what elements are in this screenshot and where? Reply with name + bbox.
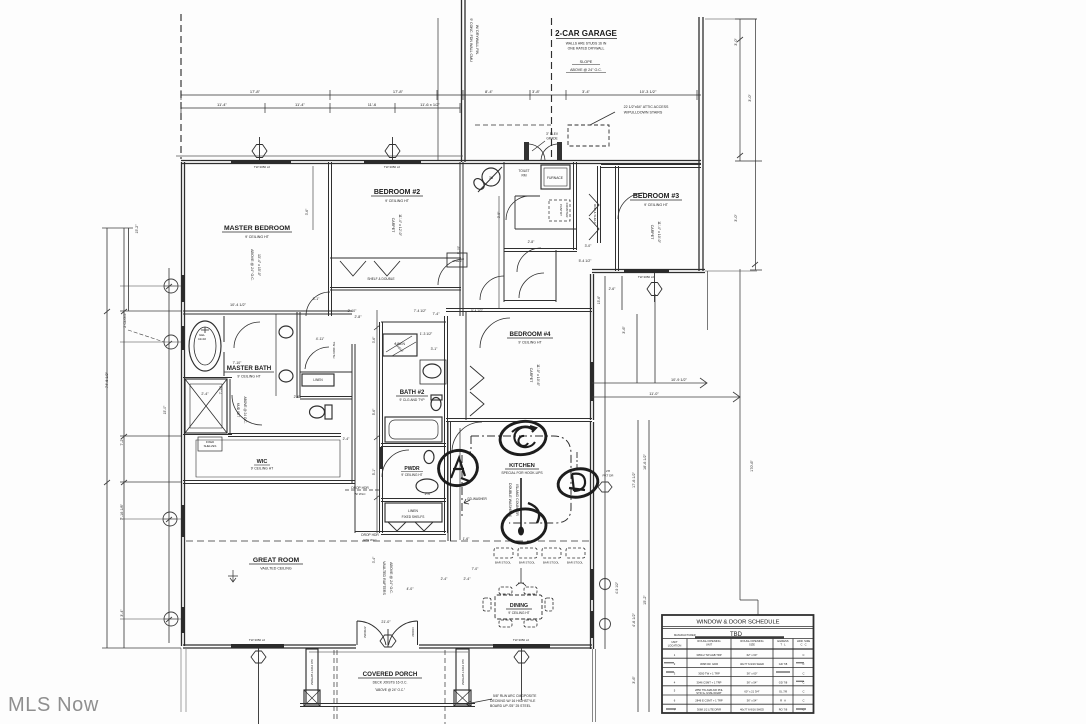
svg-text:GREAT ROOM: GREAT ROOM: [253, 557, 300, 564]
tub faucet: [201, 327, 209, 333]
furnace box: [541, 165, 570, 189]
mid bedroom right wall upper: [591, 274, 594, 420]
svg-text:TOILET: TOILET: [518, 169, 529, 173]
left circle symbol 3: [164, 612, 178, 626]
svg-text:6x6 POST W/TRIM: 6x6 POST W/TRIM: [461, 659, 465, 685]
svg-text:BATH #2: BATH #2: [400, 390, 425, 396]
svg-text:BAR STOOL: BAR STOOL: [567, 561, 583, 565]
svg-text:2'-10": 2'-10": [348, 309, 357, 313]
garage right wall: [699, 17, 703, 271]
bath2 vanity: [420, 360, 446, 384]
dining chairs bottom: [499, 620, 512, 627]
hall dim line: [374, 310, 380, 533]
master bedroom door arc: [306, 292, 330, 316]
left wall window bar 4: [181, 607, 185, 633]
svg-text:GD 7/8: GD 7/8: [779, 681, 788, 685]
svg-text:3'-4": 3'-4": [582, 89, 591, 94]
svg-text:5'-1": 5'-1": [372, 468, 376, 475]
linen master: [302, 374, 334, 386]
svg-text:2'-4": 2'-4": [201, 392, 209, 396]
pantry dashed: [549, 200, 570, 221]
svg-text:11'-4": 11'-4": [217, 102, 227, 107]
svg-text:C: C: [803, 708, 805, 712]
great room window bar: [231, 644, 284, 648]
svg-text:22 1/2"x54" ATTIC ACCESS: 22 1/2"x54" ATTIC ACCESS: [624, 105, 669, 109]
svg-text:13'-4" x 15'-0": 13'-4" x 15'-0": [257, 254, 261, 277]
svg-text:74'-6 1/2": 74'-6 1/2": [105, 371, 109, 388]
svg-text:4'-0": 4'-0": [407, 587, 415, 591]
svg-text:15'-2": 15'-2": [135, 224, 139, 234]
svg-text:5'-4 1/2": 5'-4 1/2": [471, 309, 483, 313]
left wall window bar 2: [181, 326, 185, 350]
circled A: [435, 447, 480, 489]
svg-text:C: C: [803, 690, 805, 694]
svg-text:TBD: TBD: [730, 632, 743, 638]
bed2 closet back wall: [330, 257, 461, 259]
svg-text:15'-6": 15'-6": [597, 295, 601, 304]
svg-text:VAULTED RAFTERS: VAULTED RAFTERS: [382, 561, 386, 595]
garage slab dashed edge: [475, 124, 551, 126]
svg-text:MASTER BATH: MASTER BATH: [227, 365, 272, 372]
svg-text:W/ DRYWALL FIN.: W/ DRYWALL FIN.: [475, 25, 479, 55]
svg-text:FIXED SHELFS: FIXED SHELFS: [402, 515, 425, 519]
left circle symbol 2: [163, 512, 177, 526]
porch dashed left: [334, 650, 337, 722]
dining wall extension lines: [593, 649, 596, 722]
svg-text:15'-2": 15'-2": [643, 595, 647, 605]
porch interior line: [309, 651, 468, 653]
svg-text:W/ WLC: W/ WLC: [354, 492, 366, 496]
pwdr bottom wall: [381, 499, 446, 502]
svg-text:ABOVE @ 24" O.C.: ABOVE @ 24" O.C.: [389, 562, 393, 594]
wic door arc: [232, 395, 262, 425]
mid bedroom closet wall: [465, 312, 467, 420]
svg-text:3'-8": 3'-8": [532, 89, 541, 94]
svg-text:C: C: [803, 672, 805, 676]
corner shower circle: [482, 168, 500, 186]
master dim line: [312, 166, 314, 230]
linen walls: [300, 372, 352, 399]
svg-text:ABOVE @ 24" O.C.: ABOVE @ 24" O.C.: [250, 249, 254, 281]
mud toilet: [472, 177, 487, 192]
svg-text:SHELF & DOUBLE: SHELF & DOUBLE: [367, 277, 394, 281]
svg-text:5'-6": 5'-6": [372, 408, 376, 415]
svg-text:ABOVE @ 24 O.C.: ABOVE @ 24 O.C.: [243, 397, 247, 424]
garage door arcs: [529, 144, 557, 160]
svg-text:C: C: [803, 699, 805, 703]
svg-text:DOOR: DOOR: [411, 628, 415, 638]
svg-text:16'-6 1/2": 16'-6 1/2": [643, 453, 647, 470]
svg-text:FURNACE: FURNACE: [547, 176, 564, 180]
svg-text:11'-6 x 1/2": 11'-6 x 1/2": [420, 102, 440, 107]
right top dim line b: [750, 19, 762, 270]
svg-text:2'-4": 2'-4": [464, 577, 472, 581]
svg-text:3'-4": 3'-4": [120, 609, 124, 617]
svg-text:7'-0": 7'-0": [472, 567, 480, 571]
porch dashed right: [444, 650, 446, 724]
bath2 right wall: [445, 316, 448, 533]
svg-text:ISLAND COUNTER: ISLAND COUNTER: [515, 484, 519, 516]
south wall: [183, 645, 592, 648]
svg-text:DECK JOISTS 16 O.C.: DECK JOISTS 16 O.C.: [373, 681, 408, 685]
svg-text:BAR STOOL: BAR STOOL: [543, 561, 559, 565]
top dim extension line: [437, 18, 439, 160]
svg-text:ONE RATED DRYWALL: ONE RATED DRYWALL: [568, 47, 605, 51]
bed2 closet front wall: [330, 288, 461, 291]
tub alcove wall: [223, 316, 225, 376]
svg-text:TW 3050 x2: TW 3050 x2: [384, 165, 401, 169]
svg-text:9' CEILING HT: 9' CEILING HT: [401, 473, 422, 477]
svg-text:3050-2 TW A&B TRP: 3050-2 TW A&B TRP: [696, 653, 722, 657]
mid bedroom door arc: [480, 318, 510, 348]
top dim line upper: [181, 90, 701, 100]
svg-text:BAR STOOL: BAR STOOL: [495, 561, 511, 565]
mid bedroom closet chevrons: [470, 366, 484, 416]
svg-text:21'-0": 21'-0": [381, 620, 391, 624]
svg-text:CARPET: CARPET: [391, 218, 395, 233]
svg-text:GD 7/8: GD 7/8: [779, 662, 788, 666]
svg-text:ABOVE @ 24" O.C.: ABOVE @ 24" O.C.: [570, 68, 602, 72]
svg-text:8'-4": 8'-4": [485, 89, 494, 94]
left wall window bar 1: [181, 275, 185, 302]
left circle symbol 1: [164, 279, 178, 293]
svg-text:DINING: DINING: [510, 603, 528, 609]
right bedroom door arc: [618, 193, 644, 219]
hex below dining: [514, 648, 529, 700]
wic top wall: [228, 434, 341, 437]
svg-text:3'-0": 3'-0": [734, 38, 738, 46]
shower inner: [190, 384, 222, 428]
window door schedule table: [662, 615, 814, 713]
note leader: [466, 699, 492, 706]
wic shelf box: [198, 437, 222, 451]
svg-text:ROD & SHELF: ROD & SHELF: [593, 204, 597, 224]
mud hall wall a: [503, 162, 505, 250]
grade leader: [532, 141, 545, 151]
left dim line 3: [120, 268, 181, 643]
master bath tub: [189, 321, 221, 371]
svg-text:DROP HDR: DROP HDR: [361, 533, 379, 537]
svg-text:LINEN: LINEN: [408, 509, 419, 513]
bar stool 2: [518, 548, 537, 558]
svg-text:6x6 POST W/TRIM: 6x6 POST W/TRIM: [310, 659, 314, 685]
svg-text:3'-0": 3'-0": [748, 94, 752, 102]
porch right pillar: [456, 649, 469, 704]
svg-text:SIZE: SIZE: [749, 643, 755, 647]
svg-text:UNIT: UNIT: [706, 643, 713, 647]
svg-text:60" x 21 3/4": 60" x 21 3/4": [744, 690, 759, 694]
svg-text:R/W WLC: R/W WLC: [363, 538, 377, 542]
wall master/bed2: [329, 162, 332, 316]
left wall extension lines: [181, 648, 186, 712]
bath2 toilet: [431, 398, 441, 411]
svg-text:TW 3050 x2: TW 3050 x2: [254, 165, 271, 169]
svg-text:MANUFACTURER: MANUFACTURER: [674, 633, 696, 637]
svg-text:GRADE: GRADE: [546, 137, 557, 141]
great room arrow: [228, 570, 238, 582]
right bedroom left wall: [616, 166, 619, 271]
dining chairs sides: [483, 598, 491, 611]
svg-text:BAR STOOL: BAR STOOL: [519, 561, 535, 565]
svg-text:7'-10": 7'-10": [219, 385, 223, 394]
svg-text:VAULTED CEILING: VAULTED CEILING: [260, 567, 292, 571]
bath2 sink: [423, 364, 441, 378]
wic shelf dashes: [196, 440, 340, 477]
toilet rm diagonal: [478, 167, 502, 192]
right mid dim line: [740, 269, 758, 615]
svg-text:2'-4": 2'-4": [441, 577, 449, 581]
svg-text:10'-9 1/2": 10'-9 1/2": [671, 378, 688, 382]
left dim line 1: [102, 228, 181, 648]
garage left wall: [462, 0, 466, 162]
svg-text:"ABOVE @ 24" O.C.": "ABOVE @ 24" O.C.": [375, 688, 405, 692]
entry door arcs: [357, 621, 418, 645]
svg-text:11'-4" x 12'-0": 11'-4" x 12'-0": [398, 214, 402, 237]
svg-text:2-CAR GARAGE: 2-CAR GARAGE: [555, 29, 617, 38]
right low dim line 2: [648, 420, 650, 712]
bar stool 1: [494, 548, 513, 558]
svg-text:C: C: [803, 681, 805, 685]
svg-text:T L: T L: [780, 643, 786, 647]
svg-text:CARPET: CARPET: [529, 368, 533, 383]
svg-text:BEDROOM #2: BEDROOM #2: [374, 189, 420, 196]
svg-text:9' CEILING HT: 9' CEILING HT: [251, 467, 274, 471]
dining table: [495, 595, 542, 619]
svg-text:3068 1/2 LITE DR/R: 3068 1/2 LITE DR/R: [697, 708, 721, 712]
svg-text:3050 TW + 1 TRP: 3050 TW + 1 TRP: [698, 672, 720, 676]
svg-text:3'-0": 3'-0": [497, 211, 501, 218]
drop hdr dashes: [345, 489, 381, 491]
svg-text:MASTER BEDROOM: MASTER BEDROOM: [224, 225, 290, 232]
svg-text:9' CEILING HT: 9' CEILING HT: [644, 203, 669, 207]
svg-text:17'-6 1/2": 17'-6 1/2": [632, 471, 636, 488]
svg-text:4'-11": 4'-11": [316, 337, 325, 341]
svg-text:CARPET: CARPET: [650, 225, 654, 240]
hall wall right of master suite: [352, 344, 355, 484]
mid circle symbol 2: [600, 619, 611, 630]
right bedroom window bar: [624, 269, 669, 273]
hex below greatroom: [251, 648, 266, 724]
svg-text:7'-16 1/8": 7'-16 1/8": [120, 503, 124, 520]
svg-text:2'-8": 2'-8": [528, 240, 536, 244]
svg-text:KITCHEN: KITCHEN: [509, 463, 535, 469]
svg-text:TW 3050 x2: TW 3050 x2: [638, 275, 655, 279]
svg-text:C: C: [803, 662, 805, 666]
dim v small: [622, 276, 637, 383]
mid bedroom bottom wall: [446, 419, 592, 422]
svg-text:9' CEILING HT: 9' CEILING HT: [385, 199, 410, 203]
svg-text:15'-0": 15'-0": [163, 405, 167, 414]
kitchen cabinet line: [459, 428, 461, 540]
svg-text:W/PULLDOWN STAIRS: W/PULLDOWN STAIRS: [624, 111, 663, 115]
svg-text:3'-0": 3'-0": [585, 244, 593, 248]
svg-text:LINEN: LINEN: [453, 259, 462, 263]
great room interior jog wall: [355, 484, 381, 533]
pantry walls: [515, 196, 576, 229]
mid bedroom top wall: [446, 309, 592, 312]
right bedroom bottom wall: [592, 270, 705, 273]
svg-text:PKT DR: PKT DR: [603, 474, 615, 478]
master toilet: [310, 406, 325, 418]
svg-text:3'-0": 3'-0": [734, 214, 738, 222]
hall small dims: [201, 240, 616, 581]
svg-text:7'-4 1/2": 7'-4 1/2": [414, 309, 427, 313]
svg-text:9' CEILING HT: 9' CEILING HT: [245, 235, 270, 239]
hall arcs: [517, 248, 544, 298]
svg-text:40x77 6-9/16 SHED: 40x77 6-9/16 SHED: [740, 708, 764, 712]
hall walls: [504, 250, 556, 302]
attic access dashed rect: [568, 125, 609, 146]
right low dim line 1: [637, 420, 639, 712]
dim h 11-0: [592, 392, 740, 402]
svg-text:DOUBLE WASHBOX: DOUBLE WASHBOX: [508, 483, 512, 518]
master bath top wall: [183, 311, 352, 314]
svg-text:UNIT: UNIT: [671, 640, 678, 644]
dining window bar south: [493, 644, 550, 648]
eave line: [176, 155, 463, 157]
svg-text:3" ELEV: 3" ELEV: [546, 132, 559, 136]
svg-text:PANTRY: PANTRY: [559, 204, 563, 216]
svg-text:42x32: 42x32: [198, 337, 207, 341]
svg-text:4'-6 1/2": 4'-6 1/2": [632, 612, 636, 627]
window bar master bedroom: [231, 160, 291, 164]
circled C: [498, 418, 548, 457]
svg-text:SLOPE: SLOPE: [580, 60, 593, 64]
master bath vanity wall: [297, 312, 300, 398]
svg-text:7'-2": 7'-2": [120, 438, 124, 446]
svg-text:WIC: WIC: [257, 459, 268, 465]
svg-text:10'-4 1/2": 10'-4 1/2": [230, 303, 247, 307]
circled D: [556, 466, 600, 501]
svg-text:2'-4": 2'-4": [343, 437, 351, 441]
extension right a: [705, 19, 757, 271]
top dim line lower: [181, 103, 460, 113]
svg-text:C C: C C: [800, 643, 806, 647]
svg-text:40x77 6-9/16 SHED: 40x77 6-9/16 SHED: [740, 662, 764, 666]
svg-text:3'-6": 3'-6": [305, 208, 309, 215]
circled pendant: [500, 478, 547, 545]
svg-text:DECKING W/ 16 HIGHSTYLE: DECKING W/ 16 HIGHSTYLE: [490, 699, 536, 703]
bedroom2 door arc: [438, 259, 464, 285]
right bedroom top wall: [601, 165, 701, 168]
left dim line 2: [124, 228, 129, 648]
svg-text:R A: R A: [780, 699, 786, 703]
svg-text:11'-0" x 10'-6": 11'-0" x 10'-6": [536, 364, 540, 387]
svg-text:3046 CSMT + 1 TRP: 3046 CSMT + 1 TRP: [697, 681, 722, 685]
bath2 top wall: [381, 321, 446, 323]
mid circle symbol 1: [600, 579, 611, 590]
master bath door arc: [234, 322, 260, 348]
left dim ticks: [104, 284, 172, 622]
svg-text:MLS Now: MLS Now: [8, 694, 99, 716]
rotated room size texts: [236, 18, 661, 685]
bath2 wall window bar: [379, 447, 383, 469]
svg-text:PWDR: PWDR: [404, 466, 420, 472]
svg-text:STD 3+ 6/16H DGRT: STD 3+ 6/16H DGRT: [696, 691, 722, 695]
hall door arc b: [480, 276, 504, 300]
bed2 closet chevrons: [340, 261, 400, 276]
bar stool 3: [542, 548, 561, 558]
window hexagon 1: [252, 137, 267, 161]
svg-text:2'-6": 2'-6": [294, 395, 302, 399]
svg-text:11'-6: 11'-6: [368, 102, 377, 107]
linen2 chevrons: [388, 522, 433, 531]
svg-text:2'-0": 2'-0": [425, 492, 433, 496]
svg-text:TW 3050 x2: TW 3050 x2: [513, 638, 530, 642]
svg-text:DROP HDR: DROP HDR: [351, 486, 369, 490]
svg-text:3'-6": 3'-6": [622, 326, 626, 334]
svg-text:11'-4" x 10'-0": 11'-4" x 10'-0": [657, 221, 661, 244]
garage door leaf right: [557, 142, 562, 160]
svg-text:11'-0": 11'-0": [649, 392, 659, 396]
svg-text:EGRESS: EGRESS: [777, 639, 788, 643]
mid wall window bar: [590, 362, 594, 401]
bath2 tub: [385, 417, 442, 442]
svg-text:TW 3050 x2: TW 3050 x2: [249, 638, 266, 642]
bath2/pwdr wall: [381, 444, 446, 447]
pantry door arc: [506, 196, 530, 220]
bath strip bottom wall: [381, 532, 446, 535]
diagonal leader to tub circle: [128, 330, 164, 342]
svg-text:RO 7/8: RO 7/8: [779, 708, 788, 712]
svg-text:LOCATION: LOCATION: [668, 644, 682, 648]
left exterior wall: [182, 162, 185, 646]
right top dim line a: [735, 19, 762, 161]
svg-text:9' CEILING HT: 9' CEILING HT: [518, 341, 542, 345]
svg-text:2846 E CSMT + 1 TRP: 2846 E CSMT + 1 TRP: [695, 699, 723, 703]
linen2 box: [385, 503, 442, 522]
svg-text:2'-8": 2'-8": [355, 315, 363, 319]
svg-text:HDR. SIZE: HDR. SIZE: [797, 639, 810, 643]
svg-text:C: C: [803, 653, 805, 657]
dining window bar 1: [590, 569, 594, 600]
svg-text:GD-WASHER: GD-WASHER: [467, 497, 487, 501]
attic leader: [590, 112, 615, 125]
svg-text:BEDROOM #3: BEDROOM #3: [633, 193, 679, 200]
svg-text:17'-8": 17'-8": [250, 89, 261, 94]
right short wall stub: [707, 271, 709, 330]
svg-text:3'-1": 3'-1": [431, 347, 439, 351]
svg-text:3'-6": 3'-6": [372, 336, 376, 343]
entry hexagon: [380, 629, 396, 647]
dimension texts top: [217, 89, 657, 642]
pwdr sink: [416, 479, 438, 493]
tbd underline heavy: [695, 636, 784, 638]
right bedroom hex: [647, 273, 662, 302]
svg-text:9' CLG AND TYP: 9' CLG AND TYP: [399, 398, 425, 402]
left extension lines: [120, 286, 181, 619]
wic bottom wall: [183, 481, 355, 484]
table leader: [674, 620, 780, 639]
kitchen entry arc: [452, 422, 482, 452]
svg-text:ROUGH OPENING: ROUGH OPENING: [740, 639, 763, 643]
master shower: [185, 379, 227, 433]
svg-text:3'-6": 3'-6": [632, 676, 636, 684]
svg-text:3068 DR. GDR: 3068 DR. GDR: [700, 662, 718, 666]
dim h 10-9: [592, 378, 707, 388]
porch left pillar: [306, 649, 318, 704]
svg-text:36" x 54": 36" x 54": [747, 681, 758, 685]
mud dim line: [498, 196, 500, 308]
pwdr toilet: [424, 451, 434, 464]
top dashed projection line left: [180, 14, 182, 159]
bar stool 4: [566, 548, 585, 558]
svg-text:9' CEILING HT: 9' CEILING HT: [237, 375, 261, 379]
right bedroom closet chevrons: [589, 194, 599, 240]
garage bottom wall: [463, 161, 701, 164]
mid hexagon pkt: [598, 482, 612, 492]
svg-text:2'8: 2'8: [606, 469, 610, 473]
